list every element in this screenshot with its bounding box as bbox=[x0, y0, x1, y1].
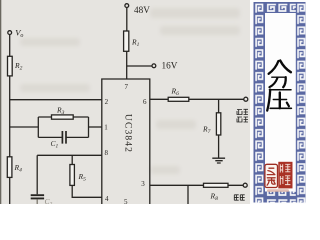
wire R7 top bbox=[218, 99, 220, 113]
svg-text:1: 1 bbox=[104, 123, 108, 131]
op-amp U1 UC3842 box bbox=[102, 79, 150, 204]
svg-text:4: 4 bbox=[105, 195, 109, 203]
wire RC loop left vertical bbox=[37, 117, 39, 137]
ground bbox=[212, 158, 225, 163]
resistor R6 bbox=[168, 97, 189, 101]
terminal 16V bbox=[152, 64, 156, 68]
wire Vo to R2 bbox=[9, 35, 11, 57]
svg-text:3: 3 bbox=[141, 180, 145, 188]
resistor R1 bbox=[124, 31, 129, 51]
wire R7 to ground bbox=[218, 135, 220, 158]
svg-text:5: 5 bbox=[124, 198, 128, 204]
wire RC loop bottom branch bbox=[38, 136, 88, 138]
svg-text:48V: 48V bbox=[134, 5, 150, 15]
terminal sense bbox=[243, 183, 247, 187]
ornamental frame: right band bbox=[296, 2, 306, 203]
svg-text:2: 2 bbox=[105, 98, 109, 106]
ornamental frame: left band bbox=[254, 2, 266, 203]
wire R1 to pin7 bbox=[126, 51, 128, 79]
svg-text:8: 8 bbox=[105, 149, 109, 157]
capacitor C2 bbox=[31, 195, 44, 198]
char YA (pressure) bbox=[267, 90, 291, 111]
wire pin2 bbox=[10, 99, 102, 101]
wire junction drop x188 bbox=[187, 185, 189, 204]
ornamental frame: top band bbox=[254, 2, 305, 13]
labels: Latin serif bbox=[14, 5, 219, 208]
svg-text:16V: 16V bbox=[162, 61, 178, 71]
svg-text:7: 7 bbox=[125, 83, 129, 91]
scan edge bbox=[0, 0, 1, 204]
wire pin6 bbox=[150, 98, 244, 100]
label drive-output (qu dong / shu chu) drawn strokes bbox=[237, 109, 248, 122]
resistor R4 bbox=[7, 157, 12, 178]
wire 48V to R1 bbox=[126, 8, 128, 31]
wire C2 top bbox=[36, 155, 38, 194]
resistor R3 bbox=[52, 115, 74, 119]
schematic paper background bbox=[0, 0, 250, 204]
wire left rail R2 to R4 bbox=[9, 76, 11, 157]
wire C2 bottom bbox=[36, 199, 38, 204]
resistor R8 bbox=[204, 183, 229, 187]
char FEN (divide) bbox=[269, 61, 291, 88]
resistor R5 bbox=[70, 165, 75, 186]
wire R5 bottom / pin4 bbox=[72, 185, 102, 197]
terminal Vo bbox=[8, 31, 12, 35]
seal smudge below bbox=[267, 189, 289, 192]
wire RC loop top branch bbox=[38, 116, 88, 118]
capacitor C1 bbox=[62, 131, 66, 144]
sidebar white background bbox=[250, 0, 306, 204]
faint bleed-through ghosts bbox=[20, 8, 240, 174]
wire left rail below R4 bbox=[9, 177, 11, 204]
wire RC loop right vertical bbox=[88, 117, 90, 137]
wire pin1 bbox=[89, 126, 102, 128]
seal left half (zhi jia) bbox=[265, 164, 278, 187]
svg-text:UC3842: UC3842 bbox=[122, 114, 133, 153]
wire pin3 bbox=[150, 184, 243, 186]
wire RC feed bbox=[10, 126, 39, 128]
resistor R2 bbox=[8, 56, 13, 76]
wire R5 top bbox=[71, 155, 73, 164]
svg-text:6: 6 bbox=[143, 98, 147, 106]
seal right half (ci hai) bbox=[278, 162, 292, 189]
wire pin8 bbox=[37, 154, 102, 156]
resistor R7 bbox=[216, 113, 220, 135]
ornamental frame: bottom band bbox=[254, 192, 305, 203]
label sense (jian ce) drawn strokes bbox=[234, 195, 244, 200]
terminal drive output bbox=[244, 97, 248, 101]
wire 16V branch bbox=[127, 65, 152, 67]
terminal 48V bbox=[125, 4, 129, 8]
